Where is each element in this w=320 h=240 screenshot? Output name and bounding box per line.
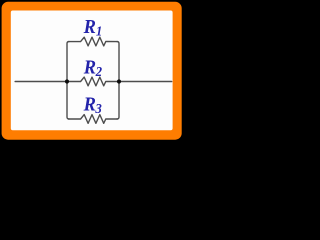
wire left bus [67,42,69,119]
orange frame [2,2,182,140]
wire right bus [117,42,119,119]
wire right lead [119,81,172,83]
white interior [11,11,173,131]
resistor R1 [69,37,118,46]
wire left lead [15,81,67,83]
label R2 [83,57,102,79]
label R1 [83,16,103,38]
label R3 [83,94,102,116]
node left junction [65,79,69,83]
resistor R3 [69,115,118,124]
node right junction [117,79,121,83]
resistor R2 [67,77,119,86]
